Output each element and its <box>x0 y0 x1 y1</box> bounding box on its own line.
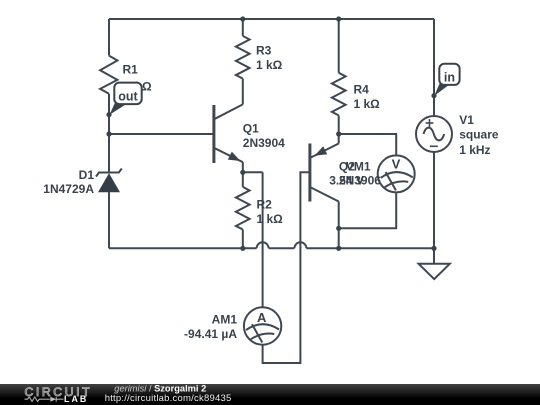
svg-text:out: out <box>118 90 138 104</box>
node VM1 bottom <box>336 226 341 231</box>
node R4 top <box>336 16 341 21</box>
footer title line <box>114 384 206 394</box>
label V1 <box>459 113 499 157</box>
flag out <box>110 83 142 115</box>
voltage source V1 <box>416 116 452 152</box>
svg-text:3.54 V: 3.54 V <box>329 174 364 188</box>
diode D1 zener <box>96 169 122 193</box>
label R2 <box>257 198 284 227</box>
wire V1 bottom to ground <box>433 152 435 264</box>
wire D1 to bottom rail <box>108 192 110 248</box>
svg-text:2N3904: 2N3904 <box>243 136 285 150</box>
resistor R2 <box>236 172 250 248</box>
wire Q1 emitter node to ammeter branch <box>243 171 263 173</box>
transistor Q1 <box>214 104 243 172</box>
ground <box>419 264 450 279</box>
resistor R3 <box>236 36 250 79</box>
wire R4 bottom lead <box>338 115 340 134</box>
label Q1 <box>243 122 285 151</box>
svg-text:1 kΩ: 1 kΩ <box>354 97 381 111</box>
svg-text:VM1: VM1 <box>346 160 371 174</box>
label D1 <box>43 168 94 196</box>
svg-text:Q1: Q1 <box>243 122 259 136</box>
node in <box>431 93 436 98</box>
resistor R4 <box>332 73 346 116</box>
node R3 top <box>240 16 245 21</box>
svg-text:-94.41 µA: -94.41 µA <box>184 327 237 341</box>
node R4 bottom <box>336 131 341 136</box>
footer bar <box>0 384 540 405</box>
svg-text:AM1: AM1 <box>212 313 238 327</box>
flag in <box>434 64 459 96</box>
footer url line <box>105 393 232 404</box>
label R3 <box>256 44 283 73</box>
logo resistor squiggle <box>25 397 64 402</box>
wire R3 top lead <box>242 19 244 36</box>
label R1 <box>123 63 152 94</box>
svg-text:D1: D1 <box>79 168 95 182</box>
label VM1 <box>329 160 371 188</box>
wire Q1 base <box>109 133 214 135</box>
transistor Q2 <box>310 134 339 248</box>
svg-text:1N4729A: 1N4729A <box>43 182 94 196</box>
wire R3 bottom lead <box>242 79 244 105</box>
ammeter AM1 <box>244 307 281 344</box>
svg-text:A: A <box>257 310 267 325</box>
label Q2 <box>339 160 381 188</box>
resistor R1 <box>100 56 117 94</box>
svg-text:R4: R4 <box>354 83 370 97</box>
wire left rail upper (R1 top lead) <box>108 19 110 56</box>
node ground <box>431 246 436 251</box>
node out <box>106 112 111 117</box>
wire VM1 bottom <box>339 192 397 228</box>
node R2 bottom <box>240 246 245 251</box>
label R4 <box>354 83 381 112</box>
svg-text:1 kHz: 1 kHz <box>459 143 490 157</box>
svg-text:1 kΩ: 1 kΩ <box>256 58 283 72</box>
node Q1 base <box>106 131 111 136</box>
wire bottom rail with hops <box>109 242 434 248</box>
wire ammeter branch down <box>262 172 264 307</box>
wire VM1 top <box>339 134 397 155</box>
svg-text:V: V <box>392 157 401 172</box>
wire R4 top lead <box>338 19 340 73</box>
wire top rail <box>109 18 434 20</box>
svg-text:R2: R2 <box>257 198 273 212</box>
node Q2 collector bottom <box>336 246 341 251</box>
wire V1 rail upper <box>433 19 435 116</box>
svg-text:1 kΩ: 1 kΩ <box>257 212 284 226</box>
label AM1 <box>184 313 237 342</box>
wire R1 bottom to D1 <box>108 94 110 173</box>
logo LAB <box>64 394 88 404</box>
logo CIRCUIT <box>25 385 93 399</box>
wire AM1 bottom loop <box>263 172 310 363</box>
svg-text:R1: R1 <box>123 63 139 77</box>
svg-text:V1: V1 <box>459 113 474 127</box>
svg-text:R3: R3 <box>256 44 272 58</box>
svg-text:in: in <box>444 71 455 85</box>
logo diode <box>50 397 56 402</box>
svg-text:square: square <box>459 128 499 142</box>
voltmeter VM1 <box>378 155 415 192</box>
node Q1 emitter <box>240 170 245 175</box>
